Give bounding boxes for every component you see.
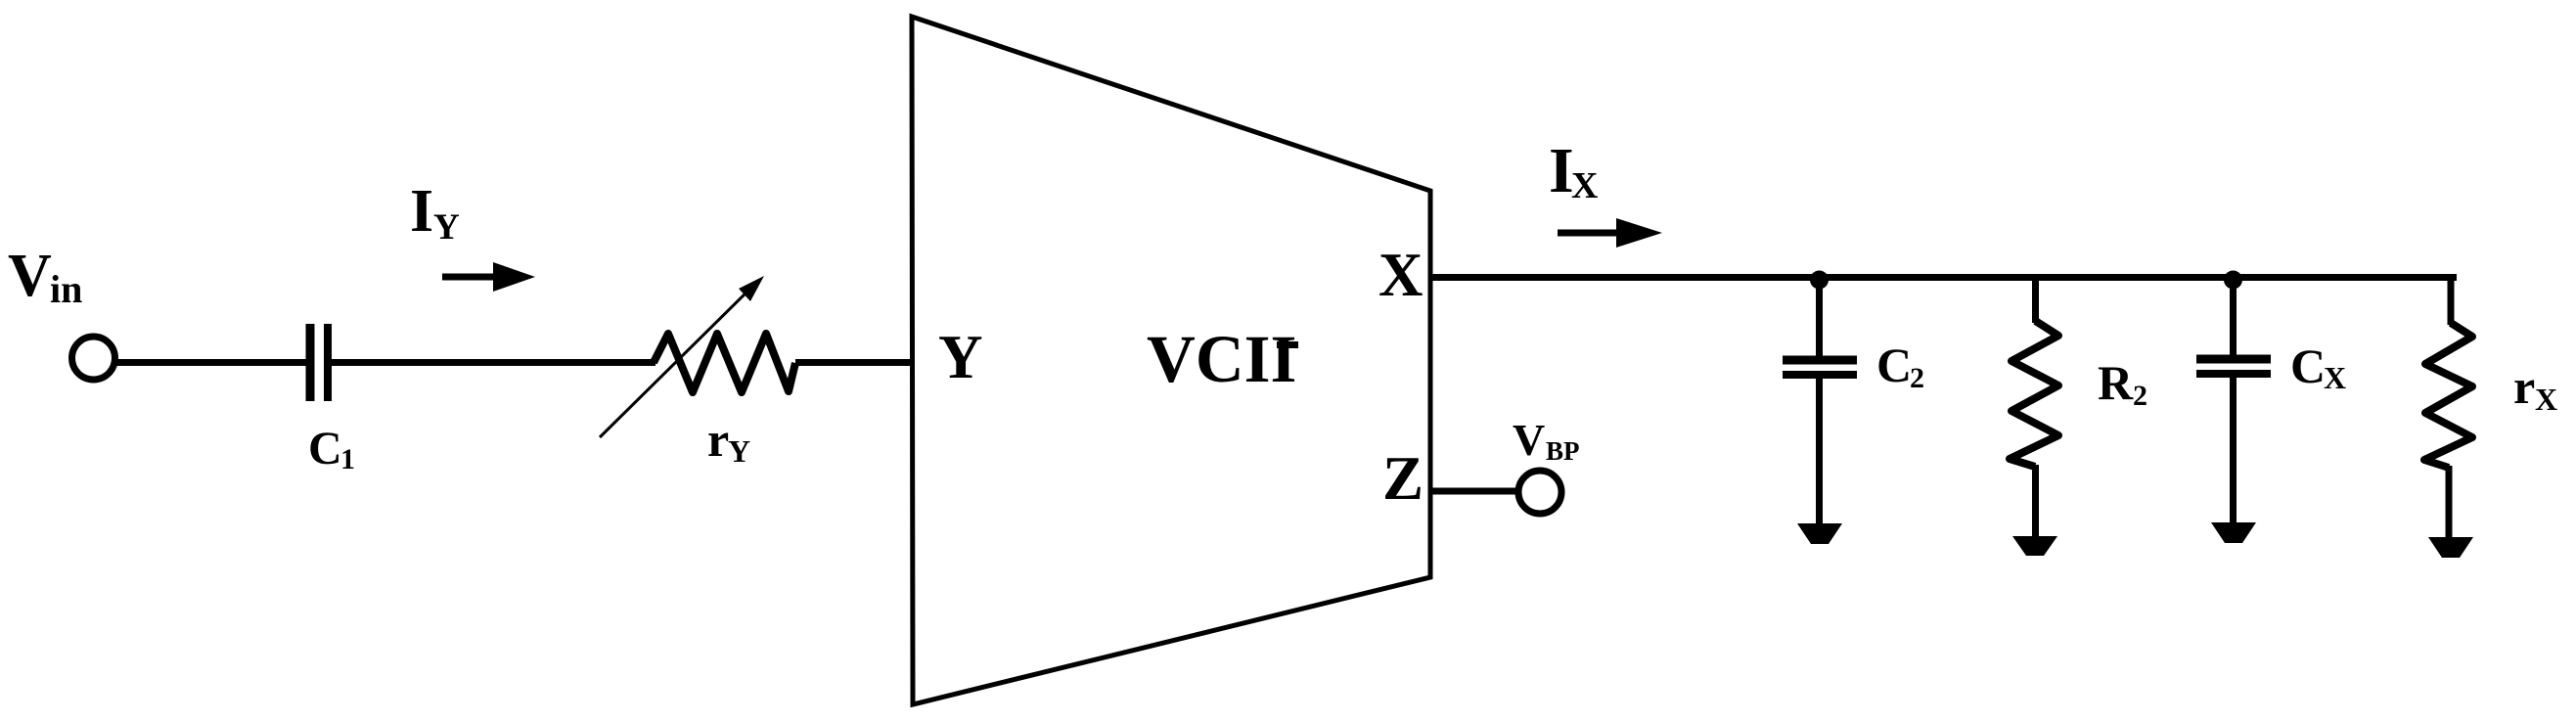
svg-text:C: C: [1876, 338, 1912, 392]
resistor rY zigzag: [654, 334, 795, 392]
label Vin: [8, 243, 82, 311]
wire CX bottom: [2230, 378, 2237, 524]
svg-text:V: V: [1513, 415, 1545, 465]
svg-text:Z: Z: [1382, 444, 1424, 513]
capacitor C1: [310, 324, 328, 401]
label rX: [2513, 359, 2557, 417]
svg-text:X: X: [2535, 382, 2557, 417]
wire R2 top: [2032, 277, 2039, 323]
resistor R2 zigzag: [2010, 321, 2058, 467]
svg-text:Y: Y: [728, 433, 750, 469]
ground CX: [2211, 522, 2256, 543]
label C1: [308, 423, 355, 475]
svg-text:2: 2: [2133, 380, 2147, 412]
svg-text:V: V: [8, 243, 52, 309]
wire Z port: [1430, 488, 1517, 495]
svg-text:R: R: [2098, 355, 2134, 410]
arrow variable rY: [600, 276, 764, 437]
junction node CX: [2224, 271, 2242, 290]
wire rX corner: [2448, 277, 2455, 325]
svg-text:C: C: [308, 423, 342, 474]
ground C2: [1797, 523, 1842, 544]
label port Z: [1382, 444, 1424, 513]
svg-text:I: I: [1549, 135, 1574, 206]
label C2: [1876, 338, 1924, 394]
junction node C2: [1810, 271, 1829, 290]
svg-text:Y: Y: [433, 207, 460, 248]
svg-text:I: I: [410, 178, 433, 245]
wire C2 bottom: [1816, 379, 1823, 526]
label CX: [2290, 339, 2346, 395]
svg-text:BP: BP: [1546, 436, 1580, 466]
label IY: [410, 178, 460, 248]
node Vin terminal: [72, 337, 115, 380]
wire input left of C1: [114, 359, 306, 366]
wire C1 to rY: [332, 359, 655, 366]
svg-text:VCII: VCII: [1147, 322, 1296, 396]
svg-text:Y: Y: [938, 323, 983, 391]
capacitor CX: [2196, 359, 2271, 374]
svg-text:2: 2: [1910, 362, 1924, 394]
ground R2: [2012, 536, 2057, 556]
arrow IX current: [1558, 218, 1662, 248]
svg-text:C: C: [2290, 339, 2326, 393]
wire C2 top: [1816, 277, 1823, 356]
capacitor C2: [1783, 360, 1857, 375]
wire rY to Y port: [795, 359, 914, 366]
label R2: [2098, 355, 2147, 412]
label rY: [707, 412, 750, 469]
label port X: [1378, 241, 1424, 309]
op-amp VCII trapezoid body: [912, 17, 1430, 704]
node VBP terminal: [1518, 471, 1561, 514]
svg-text:in: in: [50, 267, 82, 311]
resistor rX zigzag: [2424, 323, 2472, 468]
svg-text:r: r: [2513, 359, 2535, 414]
label IX: [1549, 135, 1598, 206]
arrow IY current: [442, 262, 535, 292]
wire X output rail: [1430, 274, 2457, 281]
ground rX: [2428, 537, 2473, 558]
svg-text:1: 1: [340, 443, 355, 475]
wire rX bottom: [2446, 466, 2453, 539]
svg-text:X: X: [1571, 165, 1598, 206]
label VBP: [1513, 415, 1580, 466]
svg-text:X: X: [2324, 360, 2346, 395]
svg-text:r: r: [707, 412, 729, 467]
label VCII-: [1147, 322, 1298, 396]
label port Y: [938, 323, 983, 391]
wire R2 bottom: [2032, 465, 2039, 538]
wire CX top: [2230, 277, 2237, 355]
svg-text:X: X: [1378, 241, 1424, 309]
